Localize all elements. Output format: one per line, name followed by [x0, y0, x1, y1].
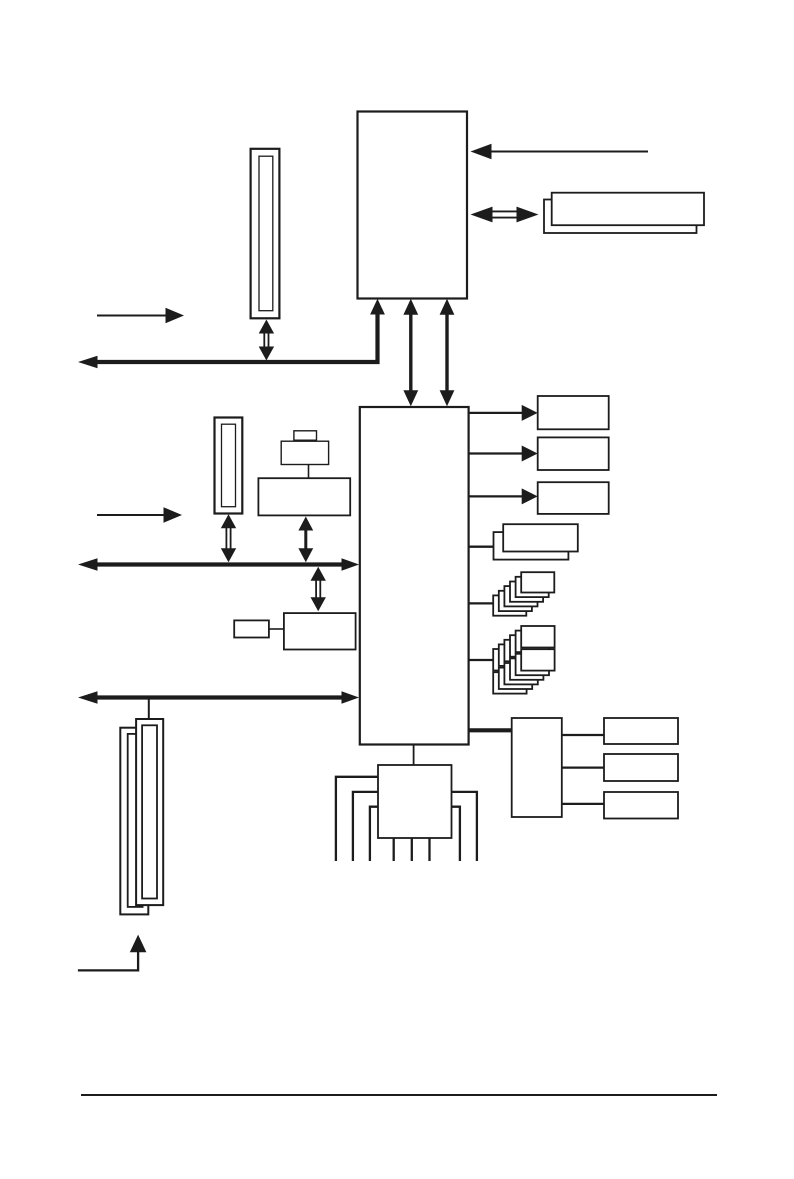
right column box 3: [538, 482, 609, 514]
IDE connector front inner: [142, 725, 157, 898]
Super I/O pin 1: [393, 838, 395, 861]
wire: codec to audio jack 3: [562, 803, 604, 805]
wire: clock signal line into CPU right side: [490, 151, 648, 153]
LAN controller box: [284, 613, 356, 649]
wire: clock generator to BIOS box: [308, 465, 310, 479]
chipset box U2 (north/south bridge): [360, 407, 469, 745]
BIOS box: [258, 478, 350, 515]
LAN transformer small box: [234, 620, 269, 637]
Super I/O peripheral line left 3: [370, 807, 378, 861]
crystal X1: [294, 431, 317, 440]
USB port stack 1 (6 cascaded boxes): [493, 572, 554, 616]
wire: IDE bus down to IDE connectors: [148, 700, 150, 720]
AGP bus thick line with left arrowhead and up-turn into CPU: [96, 313, 378, 362]
CNR slot connector outer: [215, 418, 243, 514]
PCI bus thick line with arrowheads both ends: [96, 562, 343, 566]
clock generator box: [281, 441, 328, 464]
stacked pair back box: [494, 532, 569, 560]
audio jack box 2: [604, 754, 678, 781]
audio jack box 1: [604, 718, 678, 744]
AGP slot connector inner: [259, 156, 273, 311]
double arrow PCI bus to LAN controller: [315, 579, 317, 600]
audio jack box 3: [604, 792, 678, 819]
double arrow BIOS box to PCI bus: [304, 528, 307, 551]
audio codec box: [512, 718, 562, 817]
Super I/O peripheral line left 2: [353, 792, 378, 861]
memory DIMM front module: [552, 193, 704, 226]
wire: chipset thick line to audio codec: [469, 728, 512, 732]
memory DIMM back module: [544, 200, 697, 234]
wire: chipset branch to USB stack 2: [469, 659, 494, 661]
wire: chipset branch to floppy stacked pair: [469, 546, 494, 548]
Super I/O peripheral line right 2: [452, 807, 460, 861]
double arrow AGP slot to AGP bus: [263, 331, 265, 349]
wire: codec to audio jack 2: [562, 766, 604, 768]
IDE bus thick line with arrowheads both ends: [96, 695, 343, 699]
wire: chipset branch to COM box: [469, 412, 522, 414]
wire: codec to audio jack 1: [562, 734, 604, 736]
wire: chipset branch to USB stack 1: [469, 602, 494, 604]
CPU box U1: [358, 112, 468, 299]
IDE connector back outer: [120, 728, 148, 915]
wire: chipset branch to box 3: [469, 495, 522, 497]
Super I/O pin 2: [411, 838, 413, 861]
Super I/O peripheral line left 1: [336, 777, 378, 861]
Super I/O pin 3: [428, 838, 430, 861]
power input arrow (L-shaped, up into IDE area): [78, 951, 138, 970]
wire: chipset branch to box 2: [469, 452, 522, 454]
stacked pair front box: [503, 524, 578, 551]
IDE connector back inner: [128, 734, 143, 907]
host bus double arrow 2 CPU to chipset: [445, 312, 448, 393]
IDE connector front outer: [136, 719, 163, 905]
double arrow CNR slot to PCI bus: [225, 526, 227, 551]
arrow: AGP bus label pointer: [97, 315, 167, 317]
right column box 2: [538, 437, 609, 470]
memory bus double arrow CPU to DIMM: [488, 210, 520, 212]
host bus double arrow 1 CPU to chipset: [409, 312, 412, 393]
Super I/O box: [378, 765, 452, 838]
wire: transformer to LAN controller: [269, 628, 284, 630]
AGP slot connector outer: [251, 149, 280, 318]
arrow: PCI bus label pointer: [97, 514, 165, 516]
footer rule: [81, 1094, 717, 1096]
USB port stack 2 (6 cascaded pairs): [493, 626, 554, 694]
wire: chipset to Super I/O: [413, 745, 415, 766]
arrowhead: clock into CPU: [471, 144, 492, 159]
COM box (right column 1): [538, 396, 609, 429]
CNR slot connector inner: [222, 424, 236, 507]
Super I/O peripheral line right 1: [452, 792, 477, 861]
